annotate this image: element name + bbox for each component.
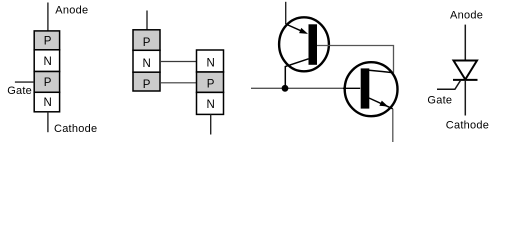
svg-text:Cathode: Cathode <box>54 123 97 135</box>
wire P-P interconnect <box>160 82 197 84</box>
wire gate rail (transistor model) <box>251 87 360 89</box>
transistor Q1 emitter line <box>286 24 303 32</box>
P layer 1 (stack 1) <box>34 31 59 50</box>
wire anode lead (layer stack) <box>47 3 49 31</box>
transistor Q1 (PNP) circle <box>279 17 329 71</box>
wire gate into Q2 base <box>343 87 360 89</box>
svg-text:Cathode: Cathode <box>446 120 489 132</box>
transistor Q2 base bar <box>361 68 370 108</box>
svg-text:N: N <box>43 97 51 109</box>
N layer (left stack PNP) <box>133 50 160 72</box>
N layer 1 (stack 1) <box>34 50 59 72</box>
transistor Q1 base bar <box>309 24 318 65</box>
P layer 2 (stack 1) <box>34 72 59 93</box>
transistor Q2 (NPN) circle <box>345 62 398 116</box>
wire anode lead (transistor model) <box>285 2 287 24</box>
svg-text:P: P <box>143 37 151 49</box>
transistor Q1 emitter arrowhead <box>299 28 308 34</box>
transistor Q2 emitter arrowhead <box>379 101 388 107</box>
wire anode lead (SCR symbol) <box>464 25 466 61</box>
svg-text:Gate: Gate <box>7 85 32 97</box>
wire Q1 base to Q2 collector <box>317 46 394 73</box>
transistor Q2 emitter line <box>369 98 393 109</box>
svg-text:Gate: Gate <box>427 95 452 107</box>
wire cathode lead (SCR symbol) <box>464 80 466 116</box>
junction dot <box>282 85 289 92</box>
svg-text:P: P <box>44 77 52 89</box>
wire cathode lead (two-stack model) <box>210 114 212 134</box>
wire gate lead (SCR symbol) <box>437 80 461 89</box>
svg-text:Anode: Anode <box>55 4 88 16</box>
P layer (left stack PNP, bottom) <box>133 72 160 91</box>
svg-text:N: N <box>206 99 214 111</box>
wire N-N interconnect <box>160 61 197 63</box>
svg-text:N: N <box>206 58 214 70</box>
wire gate lead (layer stack) <box>15 81 34 83</box>
N layer 2 (stack 1) <box>34 92 59 112</box>
P layer (right stack NPN) <box>197 72 224 92</box>
N layer (right stack NPN, top) <box>197 50 224 72</box>
svg-text:P: P <box>143 79 151 91</box>
wire cathode lead (transistor model) <box>392 109 394 142</box>
SCR triangle <box>454 61 478 80</box>
svg-text:N: N <box>142 58 150 70</box>
svg-text:P: P <box>44 35 52 47</box>
wire anode lead (two-stack model) <box>146 11 148 30</box>
P layer (left stack PNP) <box>133 30 160 51</box>
transistor Q1 collector line <box>285 59 308 89</box>
SCR cathode bar <box>453 79 478 81</box>
svg-text:Anode: Anode <box>450 10 483 22</box>
N layer (right stack NPN, bottom) <box>197 92 224 114</box>
svg-text:P: P <box>207 79 215 91</box>
wire cathode lead (layer stack) <box>47 112 49 132</box>
svg-text:N: N <box>43 56 51 68</box>
transistor Q2 collector line <box>369 70 394 73</box>
